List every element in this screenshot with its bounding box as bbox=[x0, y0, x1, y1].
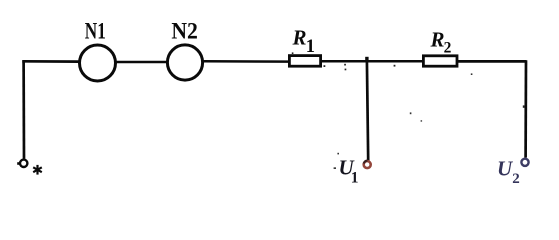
junction tick above wire bbox=[365, 57, 368, 62]
svg-text:1: 1 bbox=[306, 37, 315, 57]
wire: R2 to top-right corner bbox=[457, 60, 526, 63]
resistor R1 bbox=[289, 56, 320, 67]
noise speck near R1 top-left bbox=[292, 52, 294, 54]
noise speck right of junction bbox=[394, 65, 396, 67]
wire: top horizontal from corner to N1 left edge bbox=[22, 60, 78, 63]
tick on left of terminal bbox=[17, 162, 20, 165]
source N2 bbox=[167, 45, 202, 80]
wire: N2 to R1 bbox=[204, 60, 290, 63]
noise speck pair left of junction bbox=[344, 64, 346, 66]
svg-text:1: 1 bbox=[351, 169, 359, 186]
noise speck above mid area bbox=[410, 112, 412, 114]
noise tick on right vertical wire bbox=[523, 105, 525, 107]
dark arc on U1 terminal top-left bbox=[364, 161, 368, 164]
wire: junction vertical down to U1 terminal bbox=[367, 60, 368, 161]
noise speck below R2 right bbox=[471, 73, 473, 75]
terminal (left, with * marking) bbox=[20, 160, 27, 167]
svg-text:R: R bbox=[430, 28, 445, 52]
wire: R1 to junction to R2 bbox=[322, 60, 423, 63]
svg-text:N1: N1 bbox=[85, 19, 106, 44]
svg-text:R: R bbox=[292, 25, 307, 49]
asterisk marking bbox=[33, 165, 42, 175]
terminal U1 bbox=[364, 161, 371, 168]
wire: right vertical down to U2 terminal bbox=[524, 60, 527, 157]
svg-text:2: 2 bbox=[512, 171, 520, 187]
wire: left vertical from top-left corner down to terminal bbox=[22, 60, 25, 158]
resistor R2 bbox=[423, 56, 457, 66]
noise speck near R1 bottom-right bbox=[324, 65, 326, 67]
wire: N1 to N2 bbox=[117, 61, 168, 64]
source N1 bbox=[80, 45, 116, 81]
terminal U2 bbox=[521, 159, 528, 166]
svg-text:N2: N2 bbox=[171, 19, 198, 44]
noise speck left of U1 label bbox=[334, 167, 336, 169]
svg-text:2: 2 bbox=[444, 39, 452, 56]
